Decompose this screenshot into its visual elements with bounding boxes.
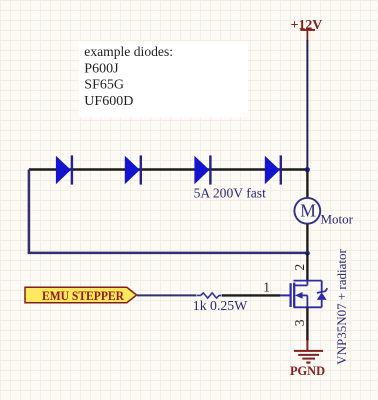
drain vertical xyxy=(306,281,308,286)
svg-text:EMU STEPPER: EMU STEPPER xyxy=(42,289,125,303)
svg-text:VNP35N07 + radiator: VNP35N07 + radiator xyxy=(334,248,349,364)
junction node A xyxy=(305,167,310,172)
net label EMU STEPPER xyxy=(25,287,137,303)
channel bar xyxy=(293,283,295,308)
svg-text:UF600D: UF600D xyxy=(84,94,133,109)
svg-text:PGND: PGND xyxy=(290,364,325,378)
bulk arrow xyxy=(295,292,303,299)
svg-text:2: 2 xyxy=(292,264,307,271)
top (drain) contact stub xyxy=(295,284,307,286)
wire flyback chain (top horizontal) xyxy=(29,168,307,170)
bottom horizontal xyxy=(294,306,322,308)
bulk stub xyxy=(302,294,307,296)
svg-text:5A 200V fast: 5A 200V fast xyxy=(194,185,266,200)
svg-text:P600J: P600J xyxy=(84,61,119,76)
svg-text:M: M xyxy=(300,200,316,220)
motor M1 xyxy=(294,198,320,224)
svg-text:Motor: Motor xyxy=(321,211,354,226)
transistor Q1 (VNP35N07) xyxy=(280,281,322,308)
wire node B to drain xyxy=(306,253,308,280)
diode D1 xyxy=(56,155,72,184)
source vertical xyxy=(306,295,308,307)
wire R1 to gate xyxy=(222,294,280,296)
junction node B xyxy=(305,251,310,256)
ground PGND xyxy=(294,340,323,363)
power +12V xyxy=(291,17,323,41)
diode D3 xyxy=(194,155,210,184)
wire EMU STEPPER to R1 xyxy=(137,294,197,296)
top horizontal to body diode xyxy=(294,280,322,282)
svg-text:1: 1 xyxy=(263,280,270,295)
diode D4 xyxy=(265,155,281,184)
wire motor to node B xyxy=(306,224,308,253)
svg-text:1k 0.25W: 1k 0.25W xyxy=(193,298,247,313)
wire source to ground xyxy=(306,307,308,340)
gate bar xyxy=(290,283,292,307)
wire flyback return (left vertical) xyxy=(28,170,31,253)
svg-text:SF65G: SF65G xyxy=(84,78,124,93)
diode D2 xyxy=(125,155,141,184)
note: example diodes list xyxy=(79,42,248,118)
wire flyback return (bottom horizontal) xyxy=(28,252,308,255)
svg-text:3: 3 xyxy=(292,319,307,326)
svg-text:example diodes:: example diodes: xyxy=(84,44,173,59)
gate pin stub xyxy=(280,294,290,296)
wire +12V down to node A xyxy=(306,40,308,170)
wire node A to motor xyxy=(306,170,308,198)
resistor R1 xyxy=(197,293,221,298)
body diode of Q1 xyxy=(317,281,328,308)
